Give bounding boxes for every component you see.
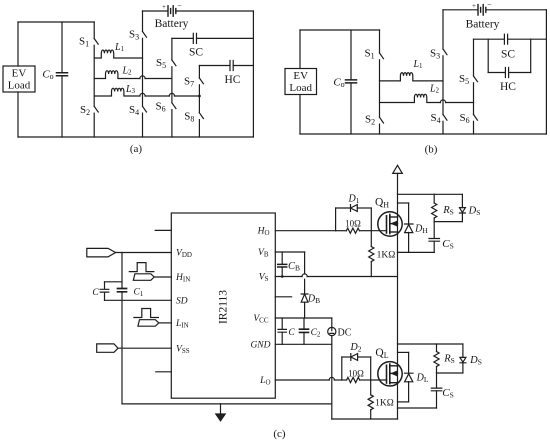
label L1 (a) [114, 42, 125, 53]
caption (a) [130, 143, 143, 155]
label Battery (a) [155, 18, 189, 30]
svg-text:10Ω: 10Ω [348, 368, 364, 378]
wire: main half-bridge vertical from arrow to Q_H drain [397, 173, 399, 216]
wire: (b) S1/S2 leg middle [379, 60, 381, 118]
transistor Q_L source stub [390, 382, 398, 384]
wire: capacitor C2 upper lead [303, 318, 305, 329]
wire: HO lead into 10ohm resistor [336, 230, 347, 232]
label Q_L [375, 347, 388, 360]
svg-text:VDD: VDD [176, 249, 192, 260]
wire: D1 cathode-side lead [357, 207, 371, 209]
svg-text:LO: LO [259, 376, 270, 387]
battery symbol (a) [168, 6, 176, 16]
transistor Q_L drain stub [390, 365, 398, 367]
wire: main vertical Q_H drain through source to C_S return [397, 216, 399, 252]
wire: (a) bottom bus [18, 136, 253, 138]
wire: snubber top bus (low side) [398, 343, 463, 345]
label R_S (high side) [442, 205, 454, 217]
wire: battery bus right segment (a) [177, 10, 254, 12]
label SC (b) [501, 49, 515, 61]
label battery minus terminal (b) [487, 0, 492, 9]
pin stub: IC top-left unconnected pin [155, 229, 171, 231]
label S3 (b) [430, 48, 440, 61]
svg-text:VCC: VCC [253, 314, 268, 325]
svg-text:(a): (a) [130, 143, 143, 155]
wire: (b) top bus [300, 29, 380, 31]
transistor Q_H source stub [390, 231, 398, 233]
label pin VDD [176, 249, 192, 260]
capacitor C_S (low side) [431, 388, 442, 391]
label S8 (a) [184, 111, 194, 124]
label D_S (high side) [468, 206, 481, 218]
diode D_S (high side, cathode down) [459, 208, 465, 213]
label L2 (a) [121, 66, 132, 77]
label 10ohm (low side) [348, 368, 364, 378]
label S5 (b) [459, 73, 469, 86]
wire: bootstrap diode DB lower lead to VCC line [304, 302, 306, 318]
resistor R_S (high side) [432, 203, 437, 218]
svg-text:SC: SC [501, 49, 515, 61]
capacitor CB [278, 264, 287, 267]
label L1 (b) [412, 59, 423, 70]
svg-text:C: C [288, 328, 295, 338]
wire: (b) SC/HC block right vertical [530, 39, 532, 72]
wire: VSS input wire [118, 347, 171, 349]
transistor Q_L gate bar [386, 365, 388, 383]
capacitor C1 [118, 289, 127, 292]
wire: HC bus left segment (a) [199, 65, 230, 67]
label S2 [80, 104, 90, 117]
svg-text:(b): (b) [425, 144, 438, 156]
svg-text:D2: D2 [350, 342, 362, 354]
wire: L2 node wire to S5 leg with hop over S3 leg [145, 78, 172, 80]
node: L3 wire joins S7/S8 leg [198, 95, 201, 98]
wire: (b) bottom bus [300, 133, 546, 135]
wire: SD input wire [105, 299, 172, 301]
wire: gate wire to Q_L [371, 379, 387, 381]
svg-text:HC: HC [225, 74, 241, 86]
wire: D_L loop top link [398, 351, 409, 353]
wire: D_H loop bottom link / C_S return to source node [398, 251, 435, 253]
label EV Load (b) [289, 70, 312, 94]
wire: S3/S4 leg middle [142, 38, 144, 106]
wire: S7/S8 leg lower [198, 120, 200, 137]
wire: (b) SC bus right segment [508, 38, 547, 40]
wire: low-side power ground rail [332, 418, 398, 420]
svg-text:−: − [487, 0, 492, 9]
wire: (b) S5/S6 leg upper [473, 39, 475, 76]
svg-text:Battery: Battery [466, 19, 500, 31]
wire: LO lead into 10ohm resistor [342, 379, 347, 381]
switch S3 [143, 32, 147, 38]
wire: R_S lower lead to node (high side) [433, 218, 435, 222]
junction hop: L3 wire over S5/S6 leg [169, 93, 174, 96]
wire: C_S upper lead (high side) [433, 222, 435, 238]
wire: battery bus left segment (a) [143, 10, 168, 12]
svg-text:EV: EV [293, 70, 308, 82]
wire: (b) battery bus right segment [487, 9, 547, 11]
label L3 (a) [125, 84, 136, 95]
capacitor C_S (high side) [429, 239, 440, 242]
switch S4 [143, 106, 147, 112]
wire: S3/S4 leg lower [142, 113, 144, 137]
wire: D_S upper lead (low side) [462, 344, 464, 357]
switch S1 (b) [380, 53, 384, 59]
svg-text:HIN: HIN [175, 273, 190, 284]
capacitor C (input side) [100, 289, 109, 292]
wire: (b) S3/S4 leg upper [442, 10, 444, 49]
label IR2113 [218, 290, 230, 324]
pin stub: IC right unconnected pin [275, 296, 291, 298]
pin stub: IC bottom-left unconnected pin [156, 371, 172, 373]
label pin VCC [253, 314, 268, 325]
wire: 1Kohm lower lead to ground rail (low side) [370, 410, 372, 419]
wire: (b) S5/S6 leg lower [473, 121, 475, 134]
wire: D2 block left vertical [341, 357, 343, 380]
wire: R_S upper lead (high side) [433, 194, 435, 203]
wire: S5/S6 leg upper [171, 38, 173, 60]
label S1 (b) [364, 48, 374, 61]
label Battery (b) [466, 19, 500, 31]
wire: D2 block right vertical [370, 357, 372, 380]
svg-text:EV: EV [12, 68, 27, 80]
svg-text:D1: D1 [348, 194, 360, 206]
wire: (b) S1/S2 leg lower [379, 124, 381, 134]
wire: main vertical from Q_H source node down through VS to Q_L drain [397, 252, 399, 366]
svg-text:HC: HC [500, 81, 516, 93]
diode D_S (low side, cathode down) [460, 357, 466, 362]
capacitor C (Vcc side) [278, 329, 286, 332]
wire: 10ohm to gate junction [359, 230, 371, 232]
wire: left bias vertical from C1 down to bottom ground rail [121, 293, 123, 404]
label S7 (a) [184, 76, 194, 89]
diode D_L (freewheel, cathode up) [405, 373, 414, 382]
label 1Kohm (high side) [377, 251, 396, 261]
svg-text:(c): (c) [273, 428, 286, 440]
wire: (a) Co branch vertical upper [61, 22, 63, 73]
svg-text:Battery: Battery [155, 18, 189, 30]
wire: SC bus right segment (a) [197, 37, 254, 39]
ground symbol [220, 404, 222, 414]
wire: (b) S5/S6 leg middle [473, 83, 475, 115]
label SC (a) [189, 47, 203, 59]
svg-text:DS: DS [469, 355, 482, 367]
wire: HIN input wire [154, 276, 171, 278]
inductor L2 (a) [94, 71, 140, 79]
capacitor HC (a) [230, 61, 233, 71]
svg-text:Load: Load [8, 80, 31, 92]
switch S2 [94, 106, 98, 112]
label pin SD [176, 296, 188, 306]
wire: C_S lower lead (low side) [436, 391, 438, 408]
wire: S7/S8 leg middle [198, 85, 200, 113]
label S2 (b) [365, 114, 375, 127]
inductor L2 (b) [380, 94, 441, 102]
inductor L1 [94, 50, 142, 58]
wire: D_H loop vertical upper [408, 203, 410, 224]
label D_H [414, 224, 428, 236]
wire: (b) S3/S4 leg middle [442, 56, 444, 115]
label DC [338, 327, 352, 338]
wire: L3 node wire between hops [145, 95, 169, 97]
wire: R_S upper lead (low side) [436, 344, 438, 352]
wire: (b) battery bus left segment [443, 9, 477, 11]
label battery plus terminal (a) [162, 3, 166, 11]
wire: VCC corner down to DC source [331, 318, 333, 327]
svg-text:GND: GND [250, 340, 270, 350]
label L2 (b) [429, 84, 440, 95]
wire: C_S return to source vertical (low side) [398, 407, 437, 409]
wire: left bias vertical from VDD wire down to C1 [121, 253, 123, 288]
label C (Vcc side) [288, 328, 295, 338]
EV Load box (b) [285, 69, 317, 95]
caption (b) [425, 144, 438, 156]
wire: HC bus right segment (a) [233, 65, 253, 67]
junction hop: VS line over VB/DB vertical [302, 274, 307, 277]
wire: D1 block left vertical [335, 208, 337, 231]
transistor Q_H channel bar [389, 215, 391, 234]
wire: 1Kohm upper lead (low side) [370, 380, 372, 395]
wire: VB jog down to bootstrap diode [304, 252, 306, 274]
wire: (b) left vertical below EV Load [299, 95, 301, 134]
wire: capacitor C lower lead joining SD wire [104, 292, 106, 300]
transistor Q_H MOSFET circle [378, 212, 402, 236]
switch S8 [199, 113, 203, 119]
wire: D2 anode-side lead [342, 356, 351, 358]
wire: L3 node wire to S7 leg [175, 95, 200, 97]
label S4 (a) [129, 104, 139, 117]
svg-text:DS: DS [468, 206, 481, 218]
switch S4 (b) [443, 115, 447, 121]
resistor 10ohm (low side) [347, 377, 360, 382]
wire: (b) SC/HC block left vertical [487, 39, 489, 72]
label D_L [416, 373, 429, 385]
label S6 (a) [155, 101, 165, 114]
battery symbol (b) [478, 5, 486, 15]
label battery minus terminal (a) [177, 2, 182, 11]
label pin VB [258, 248, 269, 259]
switch S7 [199, 78, 203, 84]
svg-text:RS: RS [443, 354, 455, 366]
wire: R_S lower lead to node (low side) [436, 367, 438, 374]
wire: capacitor CB lower lead to VS line [281, 267, 283, 277]
EV Load box [3, 66, 35, 92]
svg-text:DH: DH [414, 224, 428, 236]
diode D_H (freewheel, cathode up) [405, 224, 414, 233]
svg-text:SC: SC [189, 47, 203, 59]
connector tag LIN input [138, 320, 159, 327]
label S4 (b) [430, 112, 440, 125]
switch S6 (b) [474, 115, 478, 121]
supply arrow up [393, 165, 403, 173]
wire: decoupling capacitor C lower lead [281, 332, 283, 344]
label pin GND [250, 340, 270, 350]
wire: (b) S3/S4 leg lower [442, 121, 444, 134]
wire: snubber node link R_S to D_S (low side) [437, 372, 463, 374]
switch S6 [172, 103, 176, 109]
wire: (b) SC bus left segment [474, 38, 505, 40]
label HC (b) [500, 81, 516, 93]
label pin VS [259, 273, 269, 284]
wire: 1Kohm lower lead to VS line [370, 262, 372, 277]
svg-text:CB: CB [288, 261, 300, 273]
wire: C_S upper lead (low side) [436, 373, 438, 388]
wire: IC ground rail under chip [122, 403, 332, 405]
capacitor Co (a) [57, 73, 68, 76]
wire: (a) left vertical above EV Load box [17, 22, 19, 66]
wire: bootstrap diode DB upper lead [304, 279, 306, 294]
wire: S1/S2 leg upper [93, 22, 95, 39]
wire: D1 block right vertical [370, 208, 372, 231]
switch S5 (b) [474, 76, 478, 82]
connector tag VDD input [87, 248, 116, 257]
svg-text:HO: HO [257, 227, 270, 238]
wire: (b) Co branch vertical lower [350, 83, 352, 134]
wire: GND line from IC to DC source branch [275, 343, 332, 345]
wire: snubber node link R_S to D_S (high side) [434, 221, 462, 223]
inductor L3 [94, 88, 140, 96]
resistor 1Kohm (low side) [368, 395, 373, 410]
junction hop: LO wire over DC ground vertical [329, 377, 334, 380]
capacitor Co (b) [346, 80, 357, 83]
wire: D1 anode-side lead [336, 207, 351, 209]
label Co (b) [333, 77, 344, 90]
svg-text:DL: DL [416, 373, 429, 385]
connector tag HIN input [133, 274, 154, 281]
label C (input side) [92, 288, 99, 298]
transistor Q_L channel bar [389, 364, 391, 384]
capacitor CB upper lead [281, 252, 283, 264]
wire: S5/S6 leg middle [171, 67, 173, 103]
wire: (a) top bus from EV-load leg to S1 leg [18, 21, 94, 23]
label pin VSS [176, 344, 190, 355]
wire: LO output wire to gate network, broken at hop [275, 379, 329, 381]
transistor Q_H drain stub [390, 216, 398, 218]
label D_S (low side) [469, 355, 482, 367]
svg-text:Load: Load [289, 82, 312, 94]
wire: gate wire to Q_H [371, 230, 386, 232]
svg-text:LIN: LIN [175, 319, 189, 330]
wire: capacitor C upper lead [104, 282, 106, 289]
wire: (b) L2 node wire to S5 leg [446, 102, 474, 104]
svg-text:RS: RS [442, 205, 454, 217]
svg-text:C: C [92, 288, 99, 298]
svg-text:C1: C1 [134, 288, 144, 299]
wire: D_S upper lead (high side) [461, 194, 463, 207]
label C2 [311, 328, 321, 339]
wire: S1/S2 leg middle [93, 45, 95, 106]
transistor Q_L MOSFET circle [378, 362, 402, 386]
wire: S1/S2 leg lower [93, 113, 95, 137]
svg-text:DC: DC [338, 327, 352, 338]
switch S5 [172, 60, 176, 66]
wire: capacitor C2 lower lead [303, 332, 305, 344]
wire: S7/S8 leg upper [198, 66, 200, 79]
label S6 (b) [459, 112, 469, 125]
switch S1 [94, 39, 98, 45]
wire: SC bus left segment (a) [172, 37, 193, 39]
caption (c) [273, 428, 286, 440]
wire: (b) S1/S2 leg upper [379, 30, 381, 53]
wire: 1Kohm upper lead (high side) [370, 231, 372, 247]
pulse waveform symbol at LIN [134, 309, 159, 318]
inductor L1 (b) [380, 73, 444, 81]
svg-text:VS: VS [259, 273, 269, 284]
svg-text:10Ω: 10Ω [345, 218, 361, 228]
label battery plus terminal (b) [472, 2, 476, 10]
wire: VDD input wire [116, 252, 172, 254]
wire: D_H loop vertical lower [408, 232, 410, 252]
wire: capacitor C top link [105, 281, 123, 283]
diode D2 (points left toward driver) [351, 354, 358, 361]
wire: (a) left vertical below EV Load box [17, 92, 19, 137]
label C1 [134, 288, 144, 299]
label D1 [348, 194, 360, 206]
label pin LIN [175, 319, 189, 330]
wire: 10ohm to gate junction (low side) [360, 379, 371, 381]
node: CB joins VS line [281, 275, 284, 278]
label pin HIN [175, 273, 190, 284]
wire: (b) HC branch right segment [509, 72, 531, 74]
svg-text:+: + [472, 2, 476, 10]
capacitor SC (b) [504, 34, 507, 44]
svg-text:VB: VB [258, 248, 269, 259]
switch S2 (b) [380, 117, 384, 123]
wire: main vertical Q_L drain to source to ground rail [397, 366, 399, 419]
capacitor SC (a) [193, 33, 196, 43]
label Q_H [375, 197, 389, 210]
wire: VB stub rightward [275, 251, 304, 253]
wire: VCC line from IC to DC source corner [275, 317, 332, 319]
junction hop: L2 wire over S3/S4 leg [140, 76, 145, 79]
label C_S (high side) [442, 238, 454, 251]
svg-text:−: − [177, 2, 182, 11]
capacitor HC (b) [505, 68, 508, 78]
wire: (a) right vertical [252, 11, 254, 137]
label HC (a) [225, 74, 241, 86]
resistor R_S (low side) [434, 352, 439, 367]
wire: (b) Co branch vertical upper [350, 30, 352, 80]
label EV Load [8, 68, 31, 92]
switch S3 (b) [443, 49, 447, 55]
wire: LIN input wire [159, 322, 172, 324]
wire: D_S lower lead to node (low side) [462, 363, 464, 373]
wire: D_H loop top link [398, 202, 409, 204]
label D2 [350, 342, 362, 354]
wire: snubber top bus (high side) [398, 193, 463, 195]
wire: D_L loop bottom link [398, 401, 409, 403]
wire: (b) HC branch left segment [488, 72, 505, 74]
wire: VS line from IC to half-bridge node, broken at hop [275, 276, 302, 278]
capacitor C2 [300, 329, 309, 332]
label pin LO [259, 376, 270, 387]
voltage source DC [328, 327, 336, 335]
wire: (b) right vertical [545, 10, 547, 134]
svg-text:IR2113: IR2113 [218, 290, 230, 324]
svg-text:DB: DB [307, 294, 320, 306]
wire: D_L loop vertical upper [408, 352, 410, 373]
wire: S3/S4 leg upper [142, 11, 144, 32]
wire: (b) left vertical above EV Load [299, 30, 301, 69]
connector tag VSS input [97, 344, 118, 352]
label Co (a) [42, 69, 53, 82]
svg-text:1KΩ: 1KΩ [375, 398, 394, 408]
svg-text:SD: SD [176, 296, 188, 306]
wire: C_S lower lead to source return (high side) [433, 241, 435, 252]
label S5 (a) [156, 57, 166, 70]
label DB [307, 294, 320, 306]
wire: DC source lower lead down to ground rails, broken at LO hop [331, 336, 333, 419]
